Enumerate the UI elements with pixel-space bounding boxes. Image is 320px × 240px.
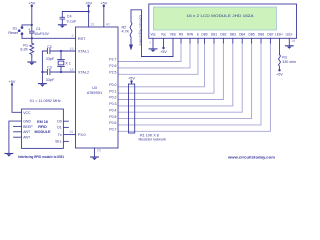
ground below R1 bbox=[28, 56, 36, 65]
power +5V pin40 bbox=[103, 5, 105, 27]
wire ANT1 stub bbox=[14, 131, 22, 133]
svg-text:18: 18 bbox=[70, 68, 74, 72]
wire C4 branch bbox=[62, 12, 88, 18]
wire DB3 stub bbox=[232, 38, 234, 43]
LCD module outer box bbox=[149, 4, 297, 38]
wire bus P0.5 to LCD DB5 (light) bbox=[118, 43, 252, 119]
wire DB2 stub bbox=[222, 38, 224, 43]
wire XTAL1 bbox=[50, 50, 76, 52]
svg-text:DB5: DB5 bbox=[248, 33, 254, 37]
node junction +5V/C1 bbox=[31, 24, 33, 26]
wire R2 loop top bbox=[131, 10, 142, 57]
capacitor C4 0.1uF bbox=[60, 17, 65, 25]
svg-text:0.1uF: 0.1uF bbox=[67, 20, 77, 24]
wire D1 stub bbox=[63, 126, 68, 128]
svg-text:+5V: +5V bbox=[85, 1, 92, 5]
svg-text:P0.2: P0.2 bbox=[109, 96, 116, 100]
svg-text:4.7K: 4.7K bbox=[122, 30, 130, 34]
svg-text:DB1: DB1 bbox=[211, 33, 217, 37]
power +5V RFID bbox=[11, 83, 22, 112]
ground pin20 bbox=[91, 157, 99, 160]
svg-text:RS: RS bbox=[179, 33, 183, 37]
wire bus P0.3 to LCD DB3 (light) bbox=[118, 43, 233, 106]
resistor R2 4.7K vertical bbox=[129, 10, 133, 51]
wire Vss pin stub bbox=[152, 38, 154, 48]
wire bus P0.1 to LCD DB1 (light) bbox=[118, 43, 214, 94]
power +5V top-left bbox=[31, 5, 33, 25]
wire BEEP stub bbox=[14, 125, 22, 127]
svg-text:EM 18: EM 18 bbox=[37, 120, 48, 124]
svg-text:Tx: Tx bbox=[58, 133, 62, 137]
wire crystal ground rail bbox=[41, 51, 43, 84]
wire DB7 stub bbox=[269, 38, 271, 43]
wire D0 stub bbox=[63, 120, 68, 122]
svg-text:P2.6: P2.6 bbox=[109, 64, 116, 68]
svg-text:Vss: Vss bbox=[150, 33, 156, 37]
ground LED- bbox=[285, 46, 293, 49]
wire VEE pin stub bbox=[172, 38, 174, 56]
svg-text:+5V: +5V bbox=[9, 80, 16, 84]
svg-text:DB4: DB4 bbox=[239, 33, 245, 37]
svg-text:Resistor network: Resistor network bbox=[139, 138, 167, 142]
svg-text:DB0: DB0 bbox=[201, 33, 207, 37]
wire IC pin20 bbox=[94, 148, 96, 157]
svg-text:MODULE: MODULE bbox=[35, 130, 52, 134]
svg-text:R/W: R/W bbox=[187, 33, 193, 37]
svg-text:X 1: X 1 bbox=[65, 62, 71, 66]
svg-text:10uF/10V: 10uF/10V bbox=[34, 32, 49, 36]
svg-text:D0: D0 bbox=[57, 120, 62, 124]
wire LED- stub bbox=[288, 38, 290, 46]
svg-text:+5V: +5V bbox=[128, 77, 135, 81]
svg-text:LED+: LED+ bbox=[275, 33, 283, 37]
resistor R1 8.2K bbox=[30, 38, 34, 56]
wire +5V to S1 branch bbox=[22, 25, 32, 27]
wire bus P2.5 to LCD E (light) bbox=[118, 43, 198, 75]
svg-text:VCC: VCC bbox=[23, 111, 31, 115]
wire DB4 stub bbox=[241, 38, 243, 43]
wire bus P2.7 to LCD RS (light) bbox=[118, 43, 181, 62]
svg-text:1: 1 bbox=[149, 41, 151, 45]
op IC U3 AT89S51 body bbox=[76, 27, 119, 148]
svg-text:C4: C4 bbox=[67, 15, 72, 19]
wire RST rail to IC pin 9 bbox=[22, 37, 76, 39]
svg-text:C2: C2 bbox=[47, 45, 52, 49]
svg-text:8.2K: 8.2K bbox=[20, 48, 28, 52]
wire DB0 stub bbox=[204, 38, 206, 43]
wire S1 to RST rail bbox=[21, 34, 23, 39]
svg-text:+: + bbox=[28, 26, 31, 31]
wire E stub bbox=[197, 38, 199, 43]
wire RFID GND bbox=[9, 121, 22, 153]
svg-text:P0.0: P0.0 bbox=[109, 83, 116, 87]
wire VEE to R2 bbox=[142, 56, 174, 58]
svg-text:DB3: DB3 bbox=[230, 33, 236, 37]
svg-text:ANT: ANT bbox=[23, 130, 31, 134]
svg-text:33pF: 33pF bbox=[46, 57, 55, 61]
resistor network R1 10K X 8 body bbox=[129, 84, 135, 133]
node junction C4 tap bbox=[88, 10, 90, 12]
wire bus P0.6 to LCD DB6 (light) bbox=[118, 43, 261, 125]
wire bus P2.6 to LCD R/W (light) bbox=[118, 43, 190, 68]
svg-text:P2.7: P2.7 bbox=[109, 58, 116, 62]
svg-text:16: 16 bbox=[291, 39, 295, 43]
svg-text:DB6: DB6 bbox=[258, 33, 264, 37]
wire LED+ stub to R3 bbox=[279, 38, 281, 54]
svg-text:Reset: Reset bbox=[8, 31, 18, 35]
capacitor C3 33pF bbox=[42, 70, 50, 75]
wire ANT2 stub bbox=[14, 136, 22, 138]
wire XTAL2 bbox=[50, 71, 76, 73]
node X1 bottom bbox=[60, 71, 62, 73]
wire bus P0.7 to LCD DB7 (light) bbox=[118, 43, 270, 132]
wire bus P0.2 to LCD DB2 (light) bbox=[118, 43, 223, 100]
wire Tx to P3.0 bbox=[63, 134, 75, 136]
ground Vss bbox=[149, 49, 157, 52]
node junction RST bbox=[31, 37, 33, 39]
svg-text:Vcc: Vcc bbox=[161, 33, 167, 37]
crystal X1 bbox=[58, 51, 65, 72]
svg-text:20: 20 bbox=[97, 149, 101, 153]
svg-text:P2.5: P2.5 bbox=[109, 71, 116, 75]
svg-text:31: 31 bbox=[91, 22, 95, 26]
svg-text:E: E bbox=[197, 33, 199, 37]
svg-text:+5V: +5V bbox=[100, 1, 107, 5]
wire DB6 stub bbox=[260, 38, 262, 43]
svg-text:DB7: DB7 bbox=[267, 33, 273, 37]
svg-text:DB2: DB2 bbox=[220, 33, 226, 37]
ground RFID bbox=[5, 154, 13, 157]
wire R/W stub bbox=[189, 38, 191, 43]
wire bus P0.4 to LCD DB4 (light) bbox=[118, 43, 242, 113]
svg-text:VEE: VEE bbox=[170, 33, 176, 37]
svg-text:P0.4: P0.4 bbox=[109, 108, 116, 112]
svg-text:33pF: 33pF bbox=[46, 78, 55, 82]
wire Vcc pin stub to +5V bbox=[162, 38, 164, 49]
wire SEL stub bbox=[63, 140, 68, 142]
svg-text:19: 19 bbox=[70, 47, 74, 51]
svg-text:9: 9 bbox=[72, 34, 74, 38]
svg-text:ANT: ANT bbox=[23, 136, 31, 140]
wire bus P0.0 to LCD DB0 (light) bbox=[118, 43, 205, 87]
svg-text:40: 40 bbox=[106, 22, 110, 26]
node X1 top bbox=[60, 50, 62, 52]
svg-text:BEEP: BEEP bbox=[23, 125, 33, 129]
svg-text:D1: D1 bbox=[57, 126, 62, 130]
svg-text:P0.5: P0.5 bbox=[109, 115, 116, 119]
pushbutton S1 Reset bbox=[18, 26, 23, 35]
resistor R3 330 ohm bbox=[278, 55, 280, 72]
svg-text:www.circuitstoday.com: www.circuitstoday.com bbox=[227, 156, 276, 160]
svg-text:P3.0: P3.0 bbox=[78, 133, 86, 137]
svg-text:SEL: SEL bbox=[55, 140, 62, 144]
node junction C3/rail bbox=[41, 71, 43, 73]
svg-text:+5V: +5V bbox=[28, 1, 35, 5]
wire DB1 stub bbox=[213, 38, 215, 43]
power +5V resistor network bbox=[130, 80, 132, 84]
svg-text:RST: RST bbox=[78, 37, 86, 41]
ground crystal rail bbox=[39, 84, 47, 87]
svg-text:XTAL2: XTAL2 bbox=[78, 71, 89, 75]
svg-text:RFID: RFID bbox=[38, 125, 47, 129]
svg-text:U3: U3 bbox=[92, 86, 97, 90]
LCD green screen bbox=[154, 7, 277, 30]
svg-text:Contrast Adjustment: Contrast Adjustment bbox=[139, 15, 143, 46]
svg-text:Interfacing RFID module to 805: Interfacing RFID module to 8051 bbox=[18, 155, 64, 159]
wire RS stub bbox=[180, 38, 182, 43]
svg-text:P0.1: P0.1 bbox=[109, 89, 116, 93]
svg-text:P0.7: P0.7 bbox=[109, 128, 116, 132]
ground below C4 bbox=[58, 25, 66, 28]
svg-text:P0.3: P0.3 bbox=[109, 102, 116, 106]
svg-text:C3: C3 bbox=[47, 66, 52, 70]
svg-text:10: 10 bbox=[69, 130, 73, 134]
svg-text:P0.6: P0.6 bbox=[109, 121, 116, 125]
power +5V pin31 bbox=[87, 5, 89, 27]
svg-text:+5V: +5V bbox=[160, 50, 167, 54]
RFID module box bbox=[22, 109, 64, 148]
svg-text:+5V: +5V bbox=[276, 73, 283, 77]
capacitor C1 bbox=[30, 25, 35, 38]
svg-text:LED-: LED- bbox=[286, 33, 293, 37]
svg-text:AT89S51: AT89S51 bbox=[87, 91, 103, 95]
svg-text:16 x 2 LCD MODULE JHD 162A: 16 x 2 LCD MODULE JHD 162A bbox=[187, 14, 255, 18]
svg-text:GND: GND bbox=[23, 120, 31, 124]
svg-text:XTAL1: XTAL1 bbox=[78, 50, 89, 54]
svg-text:330 ohm: 330 ohm bbox=[282, 60, 296, 64]
capacitor C2 33pF bbox=[42, 49, 50, 54]
svg-text:X1 = 11.0592 MHz: X1 = 11.0592 MHz bbox=[30, 99, 61, 103]
wire DB5 stub bbox=[251, 38, 253, 43]
svg-text:C1: C1 bbox=[36, 27, 41, 31]
